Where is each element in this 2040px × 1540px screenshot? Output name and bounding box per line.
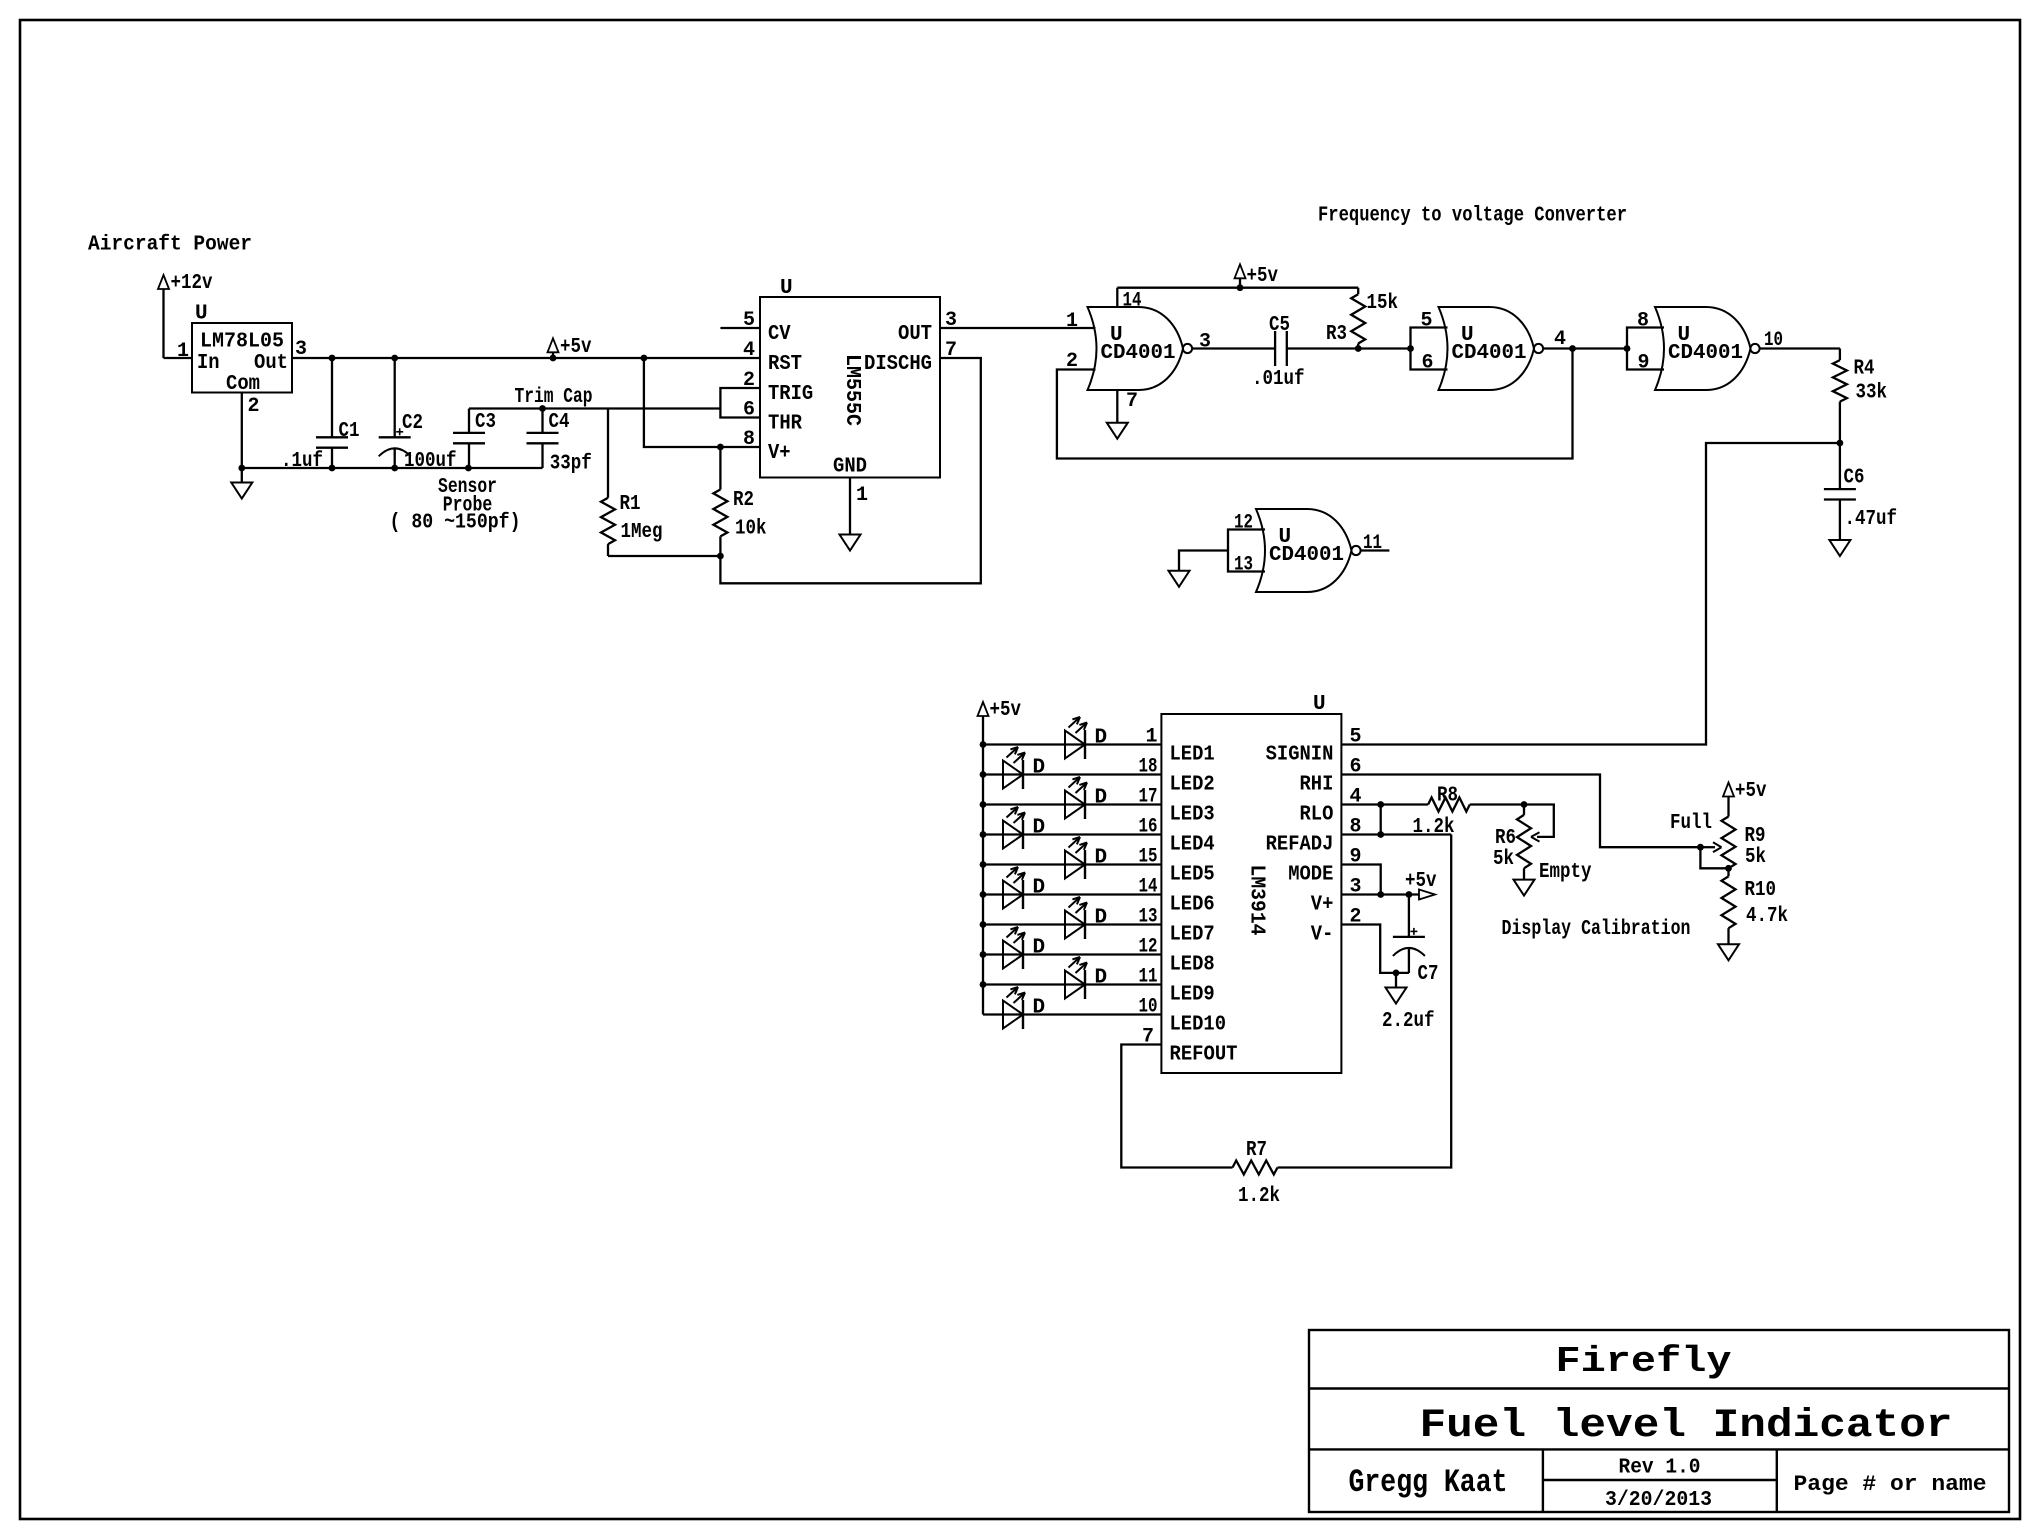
svg-text:LED2: LED2 (1170, 774, 1215, 797)
bar display driver U LM3914 (1161, 714, 1341, 1073)
wire LED row 9 anode rail to LM3914 (983, 983, 1161, 985)
svg-text:D: D (1033, 877, 1046, 900)
svg-text:R3: R3 (1326, 323, 1347, 346)
svg-text:8: 8 (1637, 310, 1649, 333)
svg-text:13: 13 (1139, 906, 1158, 929)
svg-text:1: 1 (856, 484, 868, 507)
wire ground rail under C1 C2 C3 C4 (242, 467, 543, 469)
svg-text:D: D (1095, 787, 1108, 810)
node +5v rail from LM78L05 Out to LM555C RST (292, 357, 760, 359)
resistor R1 1Meg (607, 409, 609, 498)
svg-text:5k: 5k (1493, 848, 1514, 871)
wire V+ pin 3 to +5v (1341, 893, 1419, 895)
wire LED row 2 anode rail to LM3914 (983, 773, 1161, 775)
ground below gate D input (1169, 571, 1190, 587)
wire pin 7 of gate A to ground (1116, 390, 1118, 423)
wire C5 to gate B input node (1287, 347, 1411, 349)
svg-text:+5v: +5v (560, 336, 592, 359)
svg-text:TRIG: TRIG (768, 383, 813, 406)
svg-text:OUT: OUT (898, 323, 932, 346)
ground below C6 (1829, 540, 1850, 556)
svg-text:Fuel level Indicator: Fuel level Indicator (1420, 1404, 1953, 1449)
svg-text:C3: C3 (475, 411, 496, 434)
LED D6 (1003, 881, 1023, 909)
svg-text:11: 11 (1139, 966, 1158, 989)
nor gate U CD4001 C pins 8 9 10 (1627, 328, 1664, 370)
svg-text:R7: R7 (1246, 1139, 1267, 1162)
resistor R4 33k (1839, 349, 1841, 361)
ground below C7 (1395, 973, 1397, 988)
svg-text:V-: V- (1311, 924, 1334, 947)
potentiometer R6 5k (1523, 805, 1525, 815)
svg-text:THR: THR (768, 413, 802, 436)
LED D10 (1003, 1001, 1023, 1029)
wire bracket TRIG THR of LM555C (720, 388, 760, 418)
wire +12v to U LM78L05 pin 1 (164, 357, 193, 359)
svg-text:Rev 1.0: Rev 1.0 (1619, 1456, 1701, 1480)
svg-text:R4: R4 (1854, 358, 1875, 381)
ground below LM555C GND (849, 478, 851, 535)
wire LED row 10 anode rail to LM3914 (983, 1013, 1161, 1015)
svg-text:9: 9 (1638, 352, 1650, 375)
svg-text:LED9: LED9 (1170, 984, 1215, 1007)
svg-text:CD4001: CD4001 (1269, 544, 1344, 567)
svg-text:2: 2 (248, 395, 260, 418)
power symbol +5v LED rail (978, 702, 989, 716)
resistor R3 15k (1357, 288, 1359, 295)
svg-text:U: U (195, 303, 208, 326)
svg-text:In: In (197, 352, 220, 375)
svg-text:C7: C7 (1418, 963, 1439, 986)
svg-text:REFOUT: REFOUT (1170, 1044, 1238, 1067)
wire RLO pin 4 to R8 (1341, 803, 1428, 805)
ground below R10 (1718, 944, 1739, 960)
wire LED row 6 anode rail to LM3914 (983, 893, 1161, 895)
svg-text:LED10: LED10 (1170, 1014, 1227, 1037)
svg-text:18: 18 (1139, 756, 1158, 779)
svg-text:10: 10 (1139, 996, 1158, 1019)
wire gate A output to capacitor C5 (1192, 347, 1275, 349)
wire R7 to REFADJ node (1278, 835, 1452, 1168)
svg-text:3/20/2013: 3/20/2013 (1605, 1488, 1712, 1512)
svg-text:LED8: LED8 (1170, 954, 1215, 977)
wire LED row 4 anode rail to LM3914 (983, 833, 1161, 835)
potentiometer R9 5k (1722, 817, 1736, 869)
timer U LM555C (760, 297, 940, 478)
svg-text:8: 8 (743, 428, 755, 451)
svg-text:Frequency to voltage Converter: Frequency to voltage Converter (1318, 205, 1627, 228)
svg-text:1Meg: 1Meg (621, 521, 663, 544)
svg-text:DISCHG: DISCHG (864, 353, 932, 376)
svg-text:1: 1 (177, 340, 189, 363)
svg-text:Gregg Kaat: Gregg Kaat (1349, 1464, 1508, 1501)
svg-text:D: D (1033, 997, 1046, 1020)
nor gate U CD4001 B pins 5 6 4 (1411, 328, 1448, 370)
ground below LM78L05 (241, 468, 243, 483)
svg-text:LED7: LED7 (1170, 924, 1215, 947)
resistor R8 1.2k (1428, 798, 1470, 812)
svg-text:V+: V+ (768, 442, 791, 465)
svg-text:GND: GND (833, 456, 867, 479)
wire pin 14 of gate A to +5v rail (1116, 288, 1118, 307)
wire RLO to REFADJ tie (1380, 805, 1382, 835)
svg-text:Out: Out (254, 352, 288, 375)
svg-text:R9: R9 (1745, 825, 1766, 848)
svg-text:5k: 5k (1745, 846, 1766, 869)
svg-text:R8: R8 (1437, 785, 1458, 808)
svg-text:12: 12 (1234, 512, 1253, 535)
svg-text:4: 4 (743, 339, 755, 362)
wire gate C output to R4 (1759, 347, 1840, 349)
svg-text:.1uf: .1uf (281, 450, 323, 473)
svg-text:.01uf: .01uf (1252, 368, 1305, 391)
svg-text:CD4001: CD4001 (1452, 342, 1527, 365)
svg-text:1: 1 (1066, 310, 1078, 333)
svg-text:RST: RST (768, 353, 802, 376)
svg-text:2: 2 (743, 369, 755, 392)
svg-text:10k: 10k (735, 518, 767, 541)
wire feedback gate B output to gate A pin 2 (1057, 349, 1573, 459)
svg-text:6: 6 (1422, 352, 1434, 375)
svg-text:D: D (1095, 967, 1108, 990)
svg-text:Com: Com (226, 373, 260, 396)
svg-text:D: D (1095, 847, 1108, 870)
svg-text:C5: C5 (1269, 314, 1290, 337)
svg-text:7: 7 (1126, 390, 1138, 413)
svg-text:LED1: LED1 (1170, 744, 1215, 767)
capacitor C5 .01uf (1274, 331, 1276, 366)
svg-text:+5v: +5v (990, 699, 1022, 722)
wire REFADJ pin 8 (1341, 833, 1451, 835)
svg-text:C1: C1 (339, 420, 360, 443)
wire discharge loop R2 to LM555C DISCHG pin 7 (720, 358, 980, 583)
wire +5v rail to LM555C V+ pin 8 (644, 358, 760, 447)
svg-text:LM555C: LM555C (840, 354, 863, 426)
svg-text:MODE: MODE (1288, 864, 1333, 887)
resistor R10 4.7k (1727, 868, 1729, 876)
svg-text:R2: R2 (733, 489, 754, 512)
svg-text:15: 15 (1139, 846, 1158, 869)
capacitor C4 33pf trim cap (541, 409, 543, 433)
svg-text:R1: R1 (620, 493, 641, 516)
wire R8 to R6 top (1470, 803, 1524, 805)
capacitor C2 100uf polarized (394, 358, 396, 437)
node +5v rail of converter (1117, 287, 1358, 289)
svg-text:+5v: +5v (1405, 870, 1437, 893)
svg-text:+12v: +12v (171, 272, 213, 295)
svg-text:7: 7 (945, 339, 957, 362)
capacitor C7 2.2uf polarized (1408, 895, 1410, 937)
LED D5 (1065, 851, 1085, 879)
wire LED row 8 anode rail to LM3914 (983, 953, 1161, 955)
resistor R7 1.2k (1233, 1161, 1278, 1175)
wire gate D input to ground (1179, 551, 1228, 571)
svg-text:U: U (1313, 693, 1326, 716)
svg-text:12: 12 (1139, 936, 1158, 959)
nor gate U CD4001 A pins 1 2 3 (1088, 307, 1184, 390)
wire LED row 1 anode rail to LM3914 (983, 743, 1161, 745)
svg-text:14: 14 (1139, 876, 1158, 899)
wire V- pin 2 to ground node (1341, 925, 1409, 973)
svg-text:Display Calibration: Display Calibration (1502, 918, 1691, 941)
capacitor C1 .1uf (331, 358, 333, 437)
title block frame (1309, 1330, 2009, 1512)
capacitor C6 .47uf (1839, 443, 1841, 489)
svg-text:LED3: LED3 (1170, 804, 1215, 827)
wire RHI pin 6 to R9 wiper (1341, 775, 1700, 848)
svg-text:1.2k: 1.2k (1238, 1185, 1280, 1208)
svg-text:14: 14 (1123, 290, 1142, 313)
svg-text:R10: R10 (1745, 879, 1777, 902)
wire LM78L05 Com pin 2 to ground (241, 393, 243, 469)
svg-text:2.2uf: 2.2uf (1382, 1010, 1435, 1033)
svg-text:U: U (780, 277, 793, 300)
resistor R2 10k (719, 447, 721, 490)
wire LED row 3 anode rail to LM3914 (983, 803, 1161, 805)
svg-text:Trim Cap: Trim Cap (515, 386, 593, 409)
svg-text:D: D (1033, 937, 1046, 960)
power symbol +12v (158, 275, 169, 289)
svg-text:5: 5 (1421, 310, 1433, 333)
svg-text:( 80 ~150pf): ( 80 ~150pf) (390, 512, 521, 535)
svg-text:Full: Full (1670, 812, 1712, 835)
LED D9 (1065, 971, 1085, 999)
svg-text:LED6: LED6 (1170, 894, 1215, 917)
svg-text:13: 13 (1234, 554, 1253, 577)
svg-text:3: 3 (1199, 331, 1211, 354)
svg-text:Aircraft Power: Aircraft Power (88, 234, 252, 257)
svg-text:C2: C2 (402, 412, 423, 435)
svg-text:CV: CV (768, 323, 791, 346)
svg-text:CD4001: CD4001 (1668, 342, 1743, 365)
svg-text:REFADJ: REFADJ (1266, 834, 1334, 857)
wire LED +5v rail (982, 716, 984, 1015)
svg-text:LM3914: LM3914 (1245, 865, 1268, 936)
LED D7 (1065, 911, 1085, 939)
wire MODE pin 9 to V+ (1341, 865, 1380, 895)
wiper of R6 (1524, 805, 1554, 837)
wire stub gate D output pin 11 (1360, 549, 1389, 551)
wire LED row 7 anode rail to LM3914 (983, 923, 1161, 925)
svg-text:LED5: LED5 (1170, 864, 1215, 887)
power symbol +5v converter rail (1235, 264, 1246, 278)
wire R1 bottom to R2 bottom (608, 555, 720, 557)
svg-text:100uf: 100uf (404, 450, 457, 473)
wire LED row 5 anode rail to LM3914 (983, 863, 1161, 865)
wire stub CV pin 5 (720, 327, 760, 329)
nor gate U CD4001 D pins 12 13 11 (1228, 530, 1265, 572)
wire gate B output to gate C input (1543, 347, 1627, 349)
svg-text:33k: 33k (1856, 382, 1888, 405)
svg-text:Firefly: Firefly (1556, 1341, 1732, 1382)
svg-text:D: D (1033, 757, 1046, 780)
svg-text:RHI: RHI (1300, 774, 1334, 797)
svg-text:Page # or name: Page # or name (1794, 1472, 1987, 1497)
svg-text:V+: V+ (1311, 894, 1334, 917)
svg-text:4.7k: 4.7k (1746, 905, 1788, 928)
svg-text:5: 5 (1350, 726, 1362, 749)
svg-text:17: 17 (1139, 786, 1158, 809)
wire R9 wiper to R9 bottom (1700, 847, 1728, 868)
LED D1 (1065, 731, 1085, 759)
svg-text:16: 16 (1139, 816, 1158, 839)
svg-text:1: 1 (1145, 726, 1157, 749)
wire REFOUT loop to R7 (1121, 1045, 1232, 1168)
ground below gate A (1107, 423, 1128, 439)
svg-text:LED4: LED4 (1170, 834, 1215, 857)
voltage regulator U LM78L05 (192, 323, 292, 393)
svg-text:D: D (1095, 727, 1108, 750)
svg-text:6: 6 (743, 399, 755, 422)
LED D2 (1003, 761, 1023, 789)
svg-text:15k: 15k (1367, 292, 1399, 315)
svg-text:+5v: +5v (1735, 780, 1767, 803)
svg-text:R6: R6 (1495, 827, 1516, 850)
power symbol +5v at V+ (1419, 890, 1435, 900)
LED D3 (1065, 791, 1085, 819)
svg-text:CD4001: CD4001 (1101, 342, 1176, 365)
svg-text:D: D (1033, 817, 1046, 840)
svg-text:LM78L05: LM78L05 (200, 331, 284, 354)
LED D8 (1003, 941, 1023, 969)
LED D4 (1003, 821, 1023, 849)
svg-text:D: D (1095, 907, 1108, 930)
power symbol +5v on rail (548, 338, 559, 352)
capacitor C3 sensor probe (468, 409, 470, 433)
svg-text:RLO: RLO (1300, 804, 1334, 827)
wiper arrow of R9 (1700, 846, 1715, 848)
svg-text:Empty: Empty (1539, 861, 1592, 884)
wire trim cap node to LM555C TRIG THR (469, 407, 720, 409)
svg-text:C6: C6 (1844, 467, 1865, 490)
svg-text:SIGNIN: SIGNIN (1266, 744, 1334, 767)
wire R4 C6 node to LM3914 SIGNIN pin 5 (1341, 443, 1840, 745)
ground below R6 (1514, 880, 1535, 896)
svg-text:33pf: 33pf (550, 453, 592, 476)
svg-text:+5v: +5v (1247, 265, 1279, 288)
power symbol +5v at R9 (1723, 783, 1734, 797)
svg-text:5: 5 (743, 309, 755, 332)
svg-text:C4: C4 (549, 411, 570, 434)
svg-text:.47uf: .47uf (1845, 508, 1898, 531)
wire LM555C OUT pin 3 to CD4001 gate A pin 1 (940, 327, 1096, 329)
